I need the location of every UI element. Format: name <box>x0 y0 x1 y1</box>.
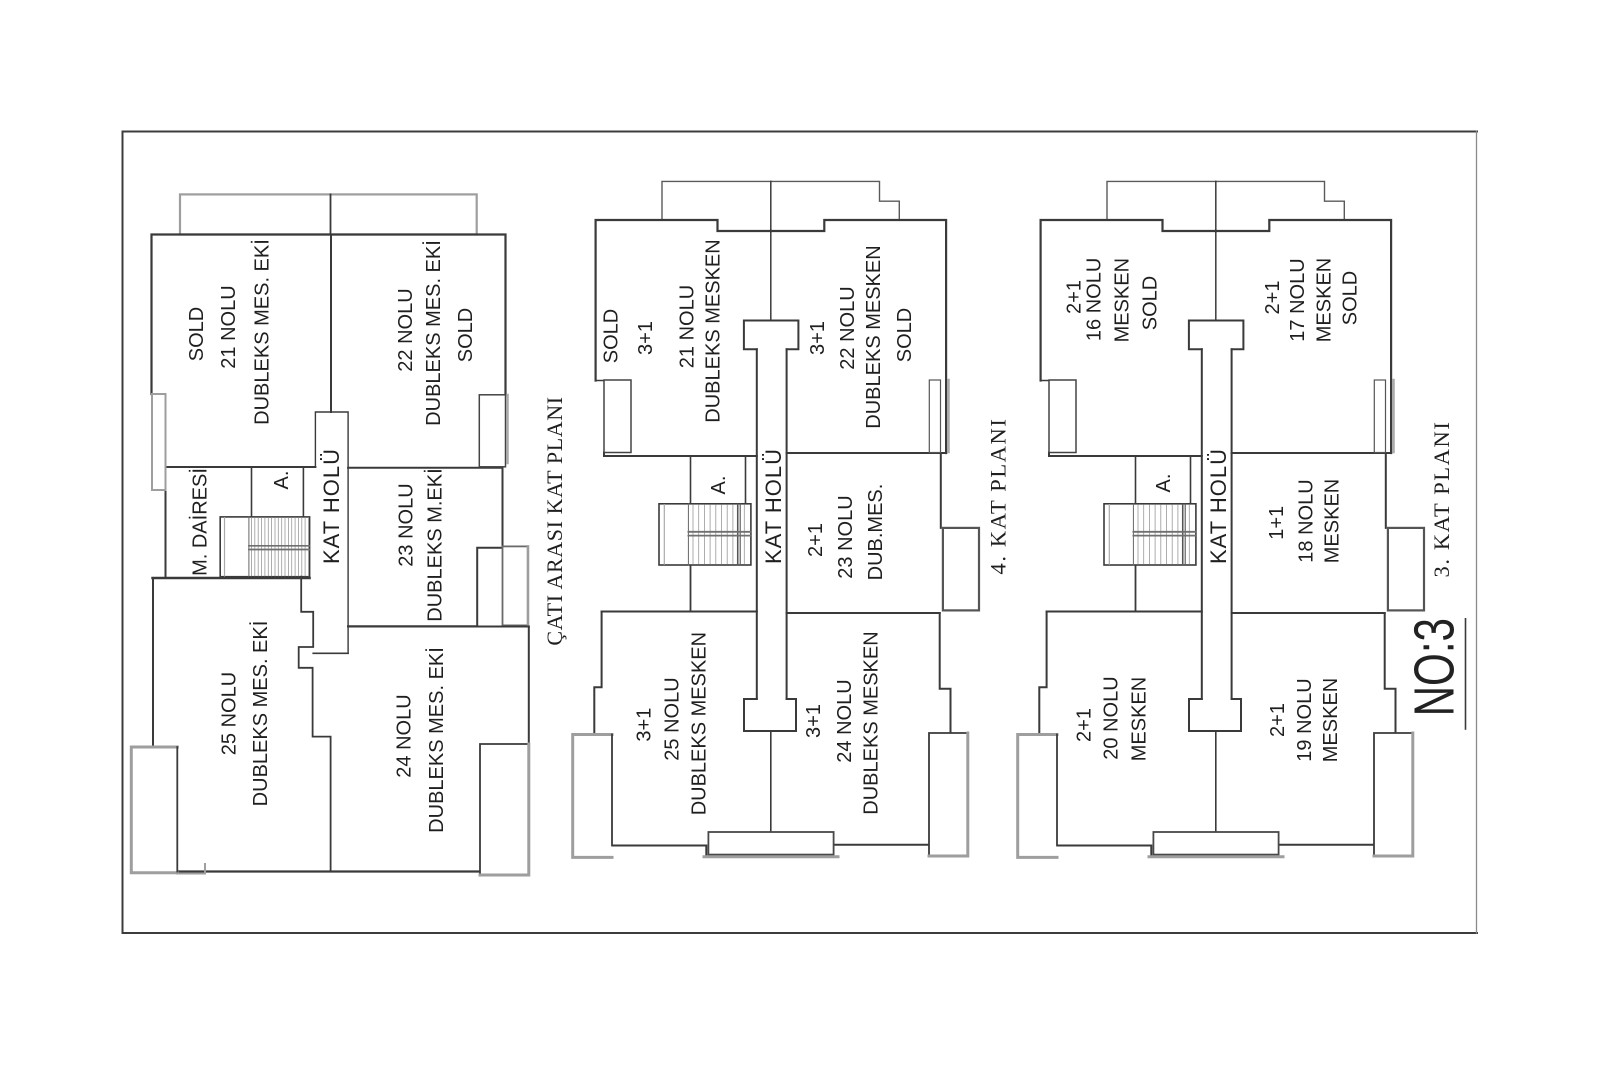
svg-text:18 NOLU: 18 NOLU <box>1296 479 1318 562</box>
svg-text:25 NOLU: 25 NOLU <box>662 677 684 760</box>
balcony bottom-right <box>929 733 968 856</box>
svg-text:16 NOLU: 16 NOLU <box>1083 258 1105 341</box>
middle plan (4. kat) building shape <box>573 181 979 857</box>
balcony mid-right <box>943 528 979 611</box>
unit24 bottom wall <box>834 844 929 846</box>
svg-text:MESKEN: MESKEN <box>1313 258 1335 342</box>
unit top-right block walls <box>771 220 946 453</box>
roof center ridge line <box>770 181 772 320</box>
svg-text:MESKEN: MESKEN <box>1322 479 1344 563</box>
unit top-left bottom wall <box>604 453 757 457</box>
svg-text:17 NOLU: 17 NOLU <box>1287 258 1309 341</box>
left plan wall below stairs zigzag <box>299 577 331 872</box>
left plan balcony unit25 bottom left <box>131 747 177 873</box>
left plan unit 23 balcony <box>503 546 528 625</box>
svg-text:SOLD: SOLD <box>894 308 916 362</box>
svg-text:M. DAİRESİ: M. DAİRESİ <box>189 468 212 576</box>
svg-text:21 NOLU: 21 NOLU <box>677 285 699 368</box>
svg-text:20 NOLU: 20 NOLU <box>1101 676 1123 759</box>
svg-text:21 NOLU: 21 NOLU <box>218 285 240 368</box>
svg-text:2+1: 2+1 <box>1262 281 1284 315</box>
svg-text:3. KAT PLANI: 3. KAT PLANI <box>1429 421 1454 578</box>
balcony top-right small <box>929 380 940 453</box>
left plan stairs landing divider <box>248 517 250 577</box>
left plan unit 22 balcony lower right <box>479 395 505 467</box>
svg-text:DUBLEKS MESKEN: DUBLEKS MESKEN <box>703 239 725 422</box>
svg-text:NO:3: NO:3 <box>1402 618 1466 716</box>
unit23/24 divider wall <box>787 612 940 614</box>
svg-text:2+1: 2+1 <box>1267 703 1289 737</box>
left plan balcony unit24 bottom right <box>480 744 529 875</box>
svg-text:KAT HOLÜ: KAT HOLÜ <box>319 448 344 564</box>
svg-text:DUBLEKS MESKEN: DUBLEKS MESKEN <box>688 632 710 815</box>
left plan unit 25 left wall <box>152 578 154 747</box>
svg-text:22 NOLU: 22 NOLU <box>837 286 859 369</box>
svg-text:KAT HOLÜ: KAT HOLÜ <box>761 448 786 564</box>
stairs landing divider <box>687 504 689 565</box>
unit25 top wall <box>602 611 757 613</box>
svg-text:19 NOLU: 19 NOLU <box>1294 678 1316 761</box>
svg-text:MESKEN: MESKEN <box>1320 678 1342 762</box>
svg-text:22 NOLU: 22 NOLU <box>395 288 417 371</box>
svg-text:DUBLEKS MESKEN: DUBLEKS MESKEN <box>863 245 885 428</box>
left plan kat holu corridor walls <box>315 412 348 653</box>
left plan m.dairesi bottom / unit25 top wall <box>153 577 310 579</box>
balcony bottom-left <box>573 735 612 858</box>
right plan (3. kat) building shape (reuse) <box>1018 181 1424 857</box>
corridor T lower block <box>744 699 796 731</box>
left plan unit 23 outline <box>348 468 505 626</box>
svg-text:KAT HOLÜ: KAT HOLÜ <box>1206 448 1231 564</box>
left plan stairs hatching <box>252 518 309 576</box>
svg-text:2+1: 2+1 <box>805 523 827 557</box>
corridor T upper block <box>744 321 799 350</box>
svg-text:24 NOLU: 24 NOLU <box>834 679 856 762</box>
svg-text:24 NOLU: 24 NOLU <box>394 694 416 777</box>
left plan unit 21 bottom wall <box>166 466 316 468</box>
left plan unit 24 right wall <box>528 627 530 745</box>
svg-text:DUBLEKS MES. EKİ: DUBLEKS MES. EKİ <box>422 240 445 426</box>
roof ridge outline <box>662 181 899 219</box>
svg-text:DUBLEKS MES. EKİ: DUBLEKS MES. EKİ <box>251 239 274 425</box>
rear terrace <box>708 832 833 855</box>
unit22/23 divider wall <box>787 452 947 454</box>
left plan unit 21/22 divider wall <box>330 235 332 413</box>
svg-text:DUBLEKS MES. EKİ: DUBLEKS MES. EKİ <box>249 621 272 807</box>
svg-text:3+1: 3+1 <box>635 321 657 355</box>
stairs outer box <box>659 504 751 565</box>
left plan roof terrace outline <box>180 194 477 234</box>
svg-text:25 NOLU: 25 NOLU <box>218 672 240 755</box>
svg-text:SOLD: SOLD <box>1340 271 1362 325</box>
unit25 left wall zigzag <box>594 612 601 735</box>
elevator corridor walls <box>691 456 746 504</box>
svg-text:A.: A. <box>1153 474 1175 493</box>
NO:3 underline <box>1465 619 1467 729</box>
balcony top-right gray edge <box>947 380 950 452</box>
svg-text:23 NOLU: 23 NOLU <box>835 495 857 578</box>
left plan unit 21-22 outer walls <box>152 235 506 395</box>
svg-text:SOLD: SOLD <box>455 308 477 362</box>
sheet border frame <box>123 132 1478 934</box>
unit24 right wall zigzag <box>940 613 951 733</box>
wall below stairs <box>690 565 692 612</box>
left plan m.dairesi left wall <box>165 467 167 578</box>
balcony top-left <box>604 380 631 453</box>
svg-text:SOLD: SOLD <box>186 307 208 361</box>
svg-text:A.: A. <box>271 471 293 490</box>
corridor walls <box>757 349 787 699</box>
stairs mid rail <box>688 532 751 536</box>
svg-text:MESKEN: MESKEN <box>1128 677 1150 761</box>
svg-text:3+1: 3+1 <box>803 704 825 738</box>
svg-text:2+1: 2+1 <box>1074 708 1096 742</box>
left plan balcony unit21 left <box>152 394 166 490</box>
svg-text:4. KAT PLANI: 4. KAT PLANI <box>986 418 1011 575</box>
left plan unit 22 balcony gray edge <box>506 395 509 463</box>
left plan gray sill bottom left <box>177 864 205 874</box>
left plan corridor bottom wall <box>313 652 348 654</box>
svg-text:1+1: 1+1 <box>1266 506 1288 540</box>
left plan terrace divider wall <box>330 194 332 234</box>
unit23 right wall <box>940 453 942 528</box>
center party wall lower <box>770 731 772 857</box>
left plan unit 24 top wall <box>348 626 529 628</box>
svg-text:MESKEN: MESKEN <box>1112 258 1134 342</box>
svg-text:23 NOLU: 23 NOLU <box>396 483 418 566</box>
left plan stairs outer box <box>220 517 309 577</box>
left plan asansor room walls <box>252 467 304 517</box>
svg-text:3+1: 3+1 <box>634 708 656 742</box>
svg-text:ÇATI ARASI KAT PLANI: ÇATI ARASI KAT PLANI <box>542 396 567 645</box>
left plan unit 23 balcony gray edge <box>527 546 530 625</box>
unit top-left block walls <box>596 220 771 381</box>
svg-text:SOLD: SOLD <box>601 309 623 363</box>
left plan stairs mid rail <box>249 546 310 550</box>
stairs inner rail walls <box>738 504 741 565</box>
svg-text:DUBLEKS M.EKİ: DUBLEKS M.EKİ <box>424 468 447 621</box>
unit25 bottom wall <box>612 846 706 857</box>
svg-text:SOLD: SOLD <box>1140 276 1162 330</box>
svg-text:DUB.MES.: DUB.MES. <box>865 484 887 581</box>
rear terrace gray sill <box>704 855 838 858</box>
svg-text:DUBLEKS MES. EKİ: DUBLEKS MES. EKİ <box>425 647 448 833</box>
svg-text:DUBLEKS MESKEN: DUBLEKS MESKEN <box>861 631 883 814</box>
svg-text:3+1: 3+1 <box>807 321 829 355</box>
stairs landing inner line <box>663 505 665 565</box>
left plan bottom wall <box>177 870 480 872</box>
stairs hatching <box>693 505 744 564</box>
svg-text:A.: A. <box>708 476 730 495</box>
left plan stairs landing inner line <box>224 518 226 576</box>
